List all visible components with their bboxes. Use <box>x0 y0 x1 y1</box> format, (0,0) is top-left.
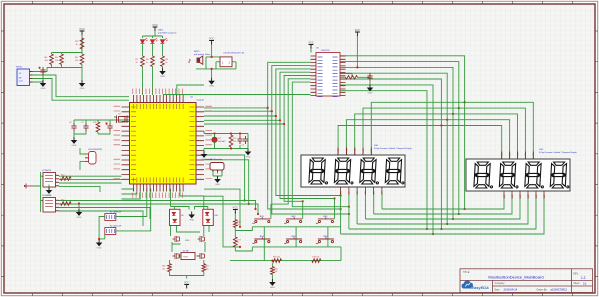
svg-text:GND: GND <box>202 159 207 161</box>
ground buzzer <box>209 78 214 88</box>
wire SEG0 to DS2 <box>340 56 533 159</box>
wire key col2 riser <box>302 201 304 219</box>
crystal Y2 <box>117 116 128 124</box>
wire R3-R6 <box>81 49 83 54</box>
wire DS1 pin drop 5 <box>381 193 383 210</box>
svg-text:BUZ1: BUZ1 <box>194 51 200 53</box>
capacitor C4 polarized <box>105 123 112 131</box>
wire DS1 pin drop 2 <box>356 193 358 225</box>
wire LED mid <box>143 44 163 56</box>
wire opto2 feed <box>180 189 204 210</box>
svg-text:GND: GND <box>215 184 220 186</box>
wire bus row 2 <box>365 195 520 220</box>
junction <box>333 197 335 199</box>
svg-text:K2 Option 4P: K2 Option 4P <box>110 224 122 227</box>
wire opto1 feed <box>170 189 172 207</box>
junction <box>248 203 250 205</box>
svg-text:10 Pad2: 10 Pad2 <box>218 141 226 143</box>
wire divider rails <box>47 35 82 80</box>
DS2 digits <box>474 162 570 188</box>
wire buzzer net <box>196 45 236 78</box>
svg-text:GND: GND <box>77 217 82 219</box>
wire SEG1 to DS2 <box>340 62 525 159</box>
ground LED <box>160 68 165 78</box>
wire SEG1 to DS1 <box>363 108 459 155</box>
wire DHT A2 <box>59 182 122 184</box>
junction <box>302 200 304 202</box>
svg-text:10k: 10k <box>55 60 58 62</box>
junction <box>426 228 428 230</box>
wire drive mid <box>172 242 205 256</box>
svg-text:REV:: REV: <box>573 274 579 276</box>
wire J1 data <box>30 75 130 97</box>
wire DS1 pin drop 1 <box>348 193 350 230</box>
MCU pin stubs left/right <box>122 107 205 179</box>
capacitor C7 <box>243 136 248 144</box>
svg-text:1k: 1k <box>76 44 78 46</box>
junction <box>211 68 213 70</box>
junction SEG2 bus <box>452 218 454 220</box>
regulator U3 <box>89 152 97 165</box>
wire SEG3 to DS2 <box>340 73 510 159</box>
wire mid net 2 <box>204 160 249 204</box>
U5 pin names <box>318 57 338 97</box>
ground filter <box>72 137 77 147</box>
svg-text:1/1: 1/1 <box>583 282 587 286</box>
svg-text:R22: R22 <box>206 266 209 268</box>
connector J1 <box>17 69 33 86</box>
resistor R3 <box>80 38 84 49</box>
svg-text:10k: 10k <box>162 268 165 270</box>
svg-text:R15: R15 <box>61 200 64 202</box>
driver X1 <box>181 253 195 260</box>
DS1 digits <box>309 158 405 184</box>
svg-text:X1 HS: X1 HS <box>183 251 189 253</box>
display DS2 <box>466 159 570 191</box>
title block <box>460 269 593 293</box>
ground thermistor L <box>202 151 207 161</box>
svg-text:R21: R21 <box>162 266 165 268</box>
DS2 top pins <box>502 152 534 160</box>
wire bus row 3 <box>357 195 528 225</box>
wire MCU right 4 <box>204 123 284 125</box>
wire MCU bottom 0 <box>122 189 134 192</box>
EasyEDA logo <box>462 280 489 290</box>
svg-text:GND: GND <box>368 92 373 94</box>
svg-text:EasyEDA: EasyEDA <box>472 285 489 290</box>
wire K2 loop <box>116 189 151 231</box>
wire U5 vcc pin <box>310 49 312 53</box>
DS1 bottom pins <box>341 187 382 195</box>
junction <box>356 66 358 68</box>
power VCC U5 <box>355 28 361 36</box>
svg-text:10k: 10k <box>75 60 78 62</box>
ground waterflow <box>215 176 220 186</box>
wire key col3 <box>280 72 335 198</box>
resistor R8 <box>151 56 155 67</box>
resistor R6 <box>80 54 84 65</box>
wire drive rail <box>170 260 204 279</box>
resistor R15 <box>61 202 72 206</box>
svg-text:U7 DHT11: U7 DHT11 <box>42 170 52 172</box>
wire bus net 6 <box>292 82 349 207</box>
pushbutton B05 <box>284 237 302 243</box>
svg-text:4 Digit Common Cathode 7 Segme: 4 Digit Common Cathode 7 Segment Display <box>539 151 577 154</box>
wire DHT A0 <box>59 175 122 177</box>
wire bus net 0 <box>268 62 341 209</box>
capacitor C1 polarized <box>38 67 45 75</box>
wire SEG3 to DS1 <box>346 120 447 155</box>
svg-text:TITLE:: TITLE: <box>463 272 470 274</box>
wire Rdown2 <box>271 275 273 280</box>
junction SEG3 bus <box>446 223 448 225</box>
wire RC net <box>340 73 370 85</box>
wire SEG4 to DS1 <box>338 126 441 156</box>
wire MCU right 3 <box>204 119 280 121</box>
power VCC U5 pin <box>308 40 314 48</box>
display DS1 <box>301 155 405 187</box>
junction <box>239 246 241 248</box>
resistor R10 <box>96 122 100 132</box>
power VCC drive <box>184 280 190 288</box>
capacitor C2 <box>71 123 76 131</box>
wire DHT B0 <box>59 201 256 210</box>
ground C1 <box>41 80 46 90</box>
junction <box>432 233 434 235</box>
wire sensor gnd 1 <box>48 185 50 188</box>
optocoupler U10 <box>203 209 214 225</box>
junction <box>283 123 285 125</box>
svg-text:10k: 10k <box>206 268 209 270</box>
ground top-left <box>80 80 85 90</box>
sensor U7 <box>43 173 56 188</box>
svg-text:1k: 1k <box>166 62 168 64</box>
svg-text:VCC: VCC <box>308 40 314 44</box>
wire J1 gnd <box>30 70 44 82</box>
power VCC keys <box>233 205 239 213</box>
wire LED rail <box>143 31 163 38</box>
ground keys <box>270 279 275 289</box>
svg-text:Drawn By:: Drawn By: <box>537 288 548 291</box>
DS1 top pins <box>338 148 371 156</box>
junction <box>257 213 259 215</box>
sensor U8 <box>43 198 56 213</box>
junction sensor 2 <box>78 202 80 204</box>
power VCC LED <box>152 23 158 31</box>
svg-text:74HC595: 74HC595 <box>321 50 330 52</box>
wire RC tie <box>340 74 352 78</box>
wire MCU right 1 <box>204 110 272 112</box>
wire DHT A3 <box>59 186 100 192</box>
svg-text:1k: 1k <box>146 62 148 64</box>
junction <box>211 56 213 58</box>
wire MCU top right <box>177 85 204 96</box>
junction <box>271 110 273 112</box>
wire thermistor net <box>204 131 248 151</box>
wire J1 clk <box>30 79 130 101</box>
power VCC buzzer <box>209 36 215 44</box>
resistor R5 <box>60 54 64 65</box>
svg-text:GND: GND <box>41 88 46 90</box>
junction <box>244 199 246 201</box>
transistor Q2 <box>198 236 205 242</box>
svg-text:GND: GND <box>270 287 275 289</box>
wire DS1 pin drop 0 <box>340 193 342 235</box>
junction <box>230 147 232 149</box>
resistor R16 <box>234 220 238 228</box>
wire bus row 4 <box>349 195 536 230</box>
capacitor C6 <box>237 136 242 144</box>
wire row feed 2 <box>204 196 240 247</box>
junction <box>275 115 277 117</box>
junction SEG1 <box>458 107 460 109</box>
wire SEG2 to DS1 <box>355 114 453 155</box>
wire MCU bottom 1 <box>122 192 137 195</box>
svg-text:VCC: VCC <box>184 280 190 284</box>
svg-text:U9: U9 <box>181 215 183 217</box>
wire U5 vcc <box>356 36 358 68</box>
svg-text:1k: 1k <box>237 242 239 244</box>
wire DHT A1 <box>59 179 122 181</box>
wire U3 <box>80 148 85 170</box>
wire C1 down <box>42 75 44 80</box>
pushbutton B03 <box>316 217 334 223</box>
ground sensor 1 <box>47 187 52 197</box>
svg-text:a1504270812: a1504270812 <box>551 287 568 291</box>
junction <box>348 213 350 215</box>
MCU inner pin names <box>131 104 195 183</box>
wire DHT B3 <box>59 211 143 226</box>
wire SEG2 to bus <box>452 114 454 219</box>
pushbutton B02 <box>284 217 302 223</box>
svg-text:pcb RGB Transparent: pcb RGB Transparent <box>158 31 177 34</box>
ground U5 <box>368 85 373 95</box>
MCU pin stubs top/bottom <box>134 95 184 192</box>
svg-text:K1 Option 4P: K1 Option 4P <box>110 210 122 213</box>
resistor R4 <box>50 54 54 65</box>
junction <box>340 208 342 210</box>
junction SEG2 <box>452 113 454 115</box>
junction <box>340 194 342 196</box>
svg-text:GND: GND <box>189 219 194 221</box>
svg-text:Company:: Company: <box>495 283 506 285</box>
junction <box>267 107 269 109</box>
U5 pin stubs <box>311 56 346 96</box>
wire SEG2 to DS2 <box>340 67 518 159</box>
junction SEG1 bus <box>458 213 460 215</box>
junction <box>239 132 241 134</box>
junction SEG0 <box>464 101 466 103</box>
wire SEG4 to DS2 <box>340 79 502 159</box>
wire K gnd link <box>99 217 105 239</box>
wire LED down <box>143 67 163 96</box>
transistor Q4 <box>198 253 205 259</box>
wire DHT B1 <box>59 204 258 214</box>
sensor U6 waterflow <box>210 163 224 171</box>
wire SEG3 to bus <box>446 120 448 224</box>
wire digit net A <box>340 85 433 234</box>
jumper K2 <box>105 228 116 235</box>
pushbutton B06 <box>316 237 334 243</box>
resistor R7 <box>141 56 145 67</box>
wire digit net B <box>340 91 427 229</box>
resistor R20 <box>271 267 275 275</box>
wire bus net 2 <box>276 69 341 196</box>
svg-text:10k: 10k <box>233 141 236 143</box>
svg-text:GND: GND <box>97 247 102 249</box>
MCU outer pin labels <box>114 89 213 199</box>
svg-text:1.2: 1.2 <box>581 276 586 280</box>
junction <box>279 119 281 121</box>
power VCC top-left <box>79 27 85 35</box>
svg-text:2018-09-14: 2018-09-14 <box>504 287 518 291</box>
wire DHT left <box>33 172 43 212</box>
capacitor C5 <box>367 73 372 81</box>
svg-text:MoxibustionDevice_MainBoard: MoxibustionDevice_MainBoard <box>488 275 543 280</box>
wire opto bridge <box>171 207 208 210</box>
svg-text:R18 10k: R18 10k <box>273 257 280 259</box>
LED D1 <box>141 38 148 43</box>
svg-text:U10: U10 <box>214 215 217 217</box>
svg-text:GND: GND <box>47 195 52 197</box>
wire filter gnd <box>74 131 110 137</box>
wire J1 vcc <box>30 68 48 72</box>
wire key rails <box>235 213 341 252</box>
microcontroller U2 (yellow QFP body) <box>130 103 197 185</box>
antenna symbol <box>24 184 33 189</box>
wire MCU right 2 <box>204 115 276 117</box>
wire bus net 1 <box>272 66 349 214</box>
thermistor RT1 <box>212 137 217 142</box>
svg-text:GND: GND <box>185 240 190 242</box>
svg-text:GND: GND <box>72 145 77 147</box>
junction <box>239 226 241 228</box>
transistor Q1 <box>173 236 180 242</box>
resistor R21 <box>168 264 172 272</box>
svg-text:U3 XC6206P332: U3 XC6206P332 <box>88 149 102 151</box>
wire bus row 1 <box>374 195 512 215</box>
wire MCU right 0 <box>204 107 268 109</box>
junction SEG4 <box>440 124 442 126</box>
svg-text:Date:: Date: <box>495 288 501 291</box>
transistor Q3 <box>173 253 180 259</box>
junction <box>254 208 256 210</box>
wire row feed 1 <box>204 189 240 227</box>
resistor R18 <box>272 259 281 263</box>
ground K <box>97 240 102 250</box>
svg-text:LED1: LED1 <box>158 30 164 32</box>
resistor R19 <box>312 259 321 263</box>
buzzer BUZ1 <box>189 56 203 64</box>
svg-text:GND: GND <box>80 88 85 90</box>
capacitor C3 <box>83 123 88 131</box>
resistor R12 <box>229 135 233 147</box>
svg-text:10k: 10k <box>274 271 277 273</box>
wire K1 loop <box>116 189 147 217</box>
svg-text:U4 HXD BXXX-DIP_S0: U4 HXD BXXX-DIP_S0 <box>223 53 245 55</box>
wire DHT B2 <box>59 208 150 220</box>
DS2 bottom pins <box>504 191 544 199</box>
svg-text:4 Digit Common Cathode 7 Segme: 4 Digit Common Cathode 7 Segment Display <box>374 147 412 150</box>
resistor R9 <box>161 56 165 67</box>
resistor R14 <box>61 177 72 181</box>
svg-text:HX711: HX711 <box>16 67 23 69</box>
wire key col drops <box>264 227 328 247</box>
wire filter rail <box>74 120 129 123</box>
svg-text:GND: GND <box>209 86 214 88</box>
wire opto down <box>171 226 210 237</box>
wire waterflow <box>213 170 222 176</box>
svg-text:pcb speaker 12mm: pcb speaker 12mm <box>194 53 211 56</box>
junction <box>230 132 232 134</box>
resistor R11 <box>346 76 358 80</box>
ground sensor 2 <box>77 209 82 219</box>
junction SEG4 bus <box>440 228 442 230</box>
svg-text:mega16: mega16 <box>197 99 205 101</box>
wire key bus <box>230 247 341 261</box>
pushbutton B04 <box>252 237 270 243</box>
wire SEG1 to bus <box>458 108 460 214</box>
wire Rdown <box>271 263 273 267</box>
junction SEG3 <box>446 119 448 121</box>
LED D3 <box>161 38 168 43</box>
optocoupler U9 <box>170 209 181 225</box>
ground opto <box>189 212 194 222</box>
LED D2 <box>151 38 158 43</box>
svg-text:VCC: VCC <box>355 28 361 32</box>
junction K gnd <box>98 238 100 240</box>
wire bus row 5 <box>341 195 544 235</box>
wire crystal <box>114 116 129 118</box>
wire SEG0 to bus <box>464 102 466 209</box>
svg-text:10k: 10k <box>45 60 48 62</box>
junction <box>271 260 273 262</box>
resistor R22 <box>202 264 206 272</box>
svg-text:VCC: VCC <box>79 27 85 31</box>
transistor driver U4 <box>220 57 232 67</box>
svg-text:VCC: VCC <box>209 36 215 40</box>
wire MCU bottom 2 <box>122 192 141 200</box>
svg-text:R19 10k: R19 10k <box>312 257 319 259</box>
svg-text:U6 Waterflow: U6 Waterflow <box>210 158 223 161</box>
wire DS1 pin drop 4 <box>373 193 375 215</box>
svg-text:GND: GND <box>160 76 165 78</box>
wire key col2 <box>284 76 310 202</box>
junction <box>213 132 215 134</box>
wire key col3 riser <box>334 199 336 219</box>
wire key col1 <box>271 79 311 204</box>
pushbutton B01 <box>252 217 270 223</box>
svg-text:VCC: VCC <box>233 205 239 209</box>
svg-text:R14: R14 <box>61 175 64 177</box>
shift register U5 <box>316 53 340 97</box>
wire bus row 0 <box>382 195 504 210</box>
junction <box>348 206 350 208</box>
resistor R17 <box>234 237 238 247</box>
svg-text:Sheet:: Sheet: <box>573 282 580 285</box>
wire MCU to U5 <box>163 94 311 96</box>
wire DS1 pin drop 3 <box>364 193 366 220</box>
svg-text:1k: 1k <box>237 224 239 226</box>
wire mid net 1 <box>204 155 245 201</box>
junction SEG0 bus <box>464 208 466 210</box>
svg-text:GND: GND <box>246 156 251 158</box>
ground thermistor R <box>246 149 251 159</box>
jumper K1 <box>105 214 116 221</box>
wire key col1 riser <box>270 204 272 219</box>
svg-text:VCC: VCC <box>152 23 158 27</box>
svg-text:7SEG: 7SEG <box>183 257 189 259</box>
